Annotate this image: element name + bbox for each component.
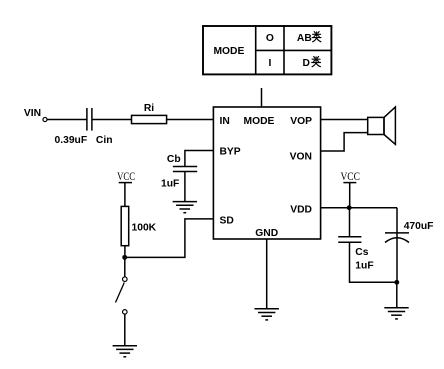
- switch S1 bottom contact: [123, 310, 128, 315]
- mode table outer border: [203, 26, 331, 74]
- svg-text:SD: SD: [220, 215, 234, 226]
- svg-text:AB: AB: [297, 33, 312, 44]
- capacitor Cs: [338, 237, 361, 243]
- svg-text:VDD: VDD: [290, 204, 312, 215]
- wire node to ground: [396, 282, 398, 308]
- svg-text:Cin: Cin: [96, 135, 113, 146]
- wire Cb to ground: [184, 172, 186, 202]
- switch S1 blade: [116, 283, 125, 303]
- svg-text:IN: IN: [220, 116, 230, 127]
- mode table row divider: [256, 49, 332, 51]
- node junction VDD: [347, 205, 352, 210]
- svg-text:VIN: VIN: [24, 108, 41, 119]
- svg-text:0.39uF: 0.39uF: [55, 135, 88, 146]
- node VIN terminal: [43, 117, 47, 121]
- wire BYP to Cb: [185, 151, 214, 167]
- svg-text:100K: 100K: [132, 223, 157, 234]
- wire node to switch: [124, 257, 126, 277]
- capacitor Cin: [87, 108, 92, 131]
- svg-text:1uF: 1uF: [161, 178, 179, 189]
- node junction bottom: [394, 280, 399, 285]
- wire VOP to speaker: [321, 119, 368, 121]
- wire Cin to Ri: [92, 119, 132, 121]
- wire MODE pin to table: [261, 88, 263, 107]
- svg-text:VCC: VCC: [340, 171, 360, 183]
- node junction SD/100K: [122, 255, 127, 260]
- wire Cs to bottom node: [350, 242, 397, 282]
- wire GND pin to ground: [266, 239, 268, 309]
- capacitor C470 plate: [385, 232, 409, 234]
- wire VCC to 100K: [124, 183, 126, 207]
- resistor Ri: [132, 115, 167, 123]
- wire 100K to node: [124, 246, 126, 258]
- svg-text:BYP: BYP: [220, 147, 241, 158]
- speaker LS1 horn: [384, 107, 395, 144]
- ground under switch: [113, 346, 137, 357]
- svg-text:470uF: 470uF: [404, 221, 434, 232]
- svg-text:VCC: VCC: [117, 171, 135, 183]
- speaker LS1 box: [368, 117, 384, 134]
- svg-text:1uF: 1uF: [355, 260, 373, 271]
- svg-text:MODE: MODE: [244, 116, 275, 127]
- wire VON to speaker: [321, 133, 368, 151]
- wire VDD rail: [321, 207, 397, 209]
- capacitor Cb: [173, 167, 197, 172]
- resistor 100K: [121, 206, 129, 245]
- svg-text:Cs: Cs: [355, 247, 368, 258]
- svg-text:MODE: MODE: [213, 46, 244, 57]
- switch S1 top contact: [123, 277, 128, 282]
- wire switch to ground: [124, 314, 126, 346]
- ground under chip: [255, 309, 279, 320]
- wire VCC to node: [349, 183, 351, 208]
- capacitor C470 curved plate: [385, 238, 409, 243]
- wire Ri to IN: [167, 119, 214, 121]
- svg-text:GND: GND: [255, 228, 278, 239]
- wire 470uF branch: [396, 208, 398, 283]
- mode table divider col2/col3: [283, 25, 285, 75]
- wire node to Cs: [349, 208, 351, 237]
- wire VIN to Cin: [47, 119, 87, 121]
- op-amp U1 chip body: [213, 107, 320, 239]
- svg-text:Cb: Cb: [167, 154, 181, 165]
- svg-text:D: D: [303, 58, 310, 69]
- svg-text:Ri: Ri: [144, 103, 154, 114]
- ground under Cb: [173, 202, 197, 213]
- svg-text:O: O: [266, 33, 274, 44]
- svg-text:VON: VON: [290, 152, 312, 163]
- wire SD pin: [125, 219, 214, 258]
- mode table divider col1/col2: [255, 25, 257, 75]
- ground right: [384, 308, 408, 319]
- svg-text:I: I: [268, 58, 271, 69]
- svg-text:VOP: VOP: [290, 116, 312, 127]
